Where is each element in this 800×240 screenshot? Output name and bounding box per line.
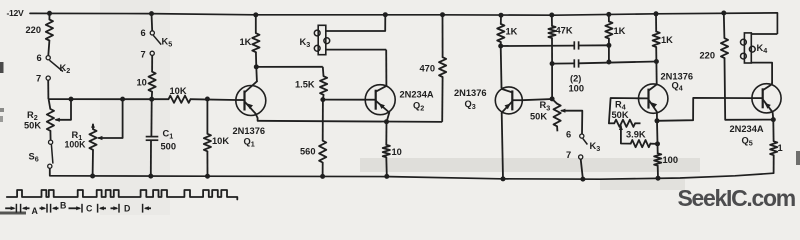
potentiometer R1 100K	[65, 123, 97, 150]
wire Q4 base	[609, 98, 639, 123]
svg-text:2N1376: 2N1376	[454, 88, 487, 98]
svg-text:50K: 50K	[612, 110, 629, 120]
capacitor 100 (upper)	[574, 41, 578, 49]
resistor 1K (Q4 collector)	[653, 14, 674, 62]
label K5	[162, 37, 173, 49]
relay contact K3 pin 7	[566, 150, 583, 160]
wire 220 to emitter node	[725, 58, 774, 120]
transistor Q5 2N234A	[730, 83, 782, 148]
resistor 1K (mid)	[605, 14, 625, 45]
wire R2 to S6	[49, 131, 51, 140]
svg-text:1K: 1K	[506, 27, 518, 37]
wire ground bottom rail	[50, 173, 774, 179]
wire Q3 emitter to ground	[502, 113, 503, 179]
resistor 1K (Q1 collector)	[240, 15, 260, 67]
node top rail / 1K Q4	[654, 11, 659, 16]
svg-text:50K: 50K	[24, 121, 41, 131]
wire Q3 base	[522, 99, 552, 100]
svg-text:B: B	[60, 201, 66, 211]
relay contact K2 pin 6	[37, 53, 51, 63]
wire K3 pin7 to ground	[581, 159, 583, 179]
node ground / R1	[90, 174, 95, 179]
resistor 100 (Q4 emitter)	[654, 144, 678, 178]
relay coil K3	[300, 25, 330, 54]
switch S6 top contact	[49, 140, 53, 144]
svg-text:1K: 1K	[614, 26, 626, 36]
switch S6 bottom contact	[48, 164, 52, 168]
wire 1K to Q4 collector	[655, 62, 657, 85]
waveform dimension arrows	[5, 204, 151, 213]
svg-text:1.5K: 1.5K	[295, 80, 315, 90]
wire Q1 collector to 1.5K	[256, 66, 323, 68]
wire K2 pin7 to node	[47, 80, 49, 99]
svg-text:10: 10	[137, 78, 147, 88]
node top rail / 47K	[549, 13, 554, 18]
relay contact K2 blade	[49, 60, 63, 71]
resistor 47K	[548, 15, 572, 64]
wire coupling cap top right	[579, 44, 609, 46]
node 1K / coupling cap	[498, 44, 503, 49]
node 47K / coupling cap lower	[550, 61, 555, 66]
wire C1 bottom lead	[150, 140, 152, 176]
node 1.5K / Q2 base / 560	[320, 97, 325, 102]
svg-text:10: 10	[392, 147, 402, 157]
wire Q1 collector	[255, 67, 258, 81]
wire emitter bus	[258, 121, 443, 122]
wire R2 wiper	[54, 99, 71, 122]
svg-text:47K: 47K	[556, 26, 573, 36]
svg-text:6: 6	[566, 129, 571, 139]
svg-text:2N1376: 2N1376	[233, 126, 266, 136]
node Q3 base / R3	[550, 96, 555, 101]
label interval A	[32, 206, 39, 216]
svg-text:7: 7	[566, 150, 571, 160]
wire rail to K5	[151, 14, 154, 31]
node top rail / K5	[149, 11, 154, 16]
wire coupling cap bottom right	[579, 62, 657, 64]
node top rail / 1K Q1	[253, 12, 258, 17]
svg-text:A: A	[32, 206, 39, 215]
node ground / 10K	[205, 174, 210, 179]
wire Q4 emitter down	[656, 121, 659, 144]
svg-text:7: 7	[141, 50, 146, 60]
node ground / 100	[656, 176, 661, 181]
svg-text:50K: 50K	[530, 111, 547, 121]
svg-text:2N234A: 2N234A	[730, 124, 764, 134]
svg-text:100: 100	[569, 84, 585, 94]
resistor 1 (Q5 emitter)	[770, 120, 783, 174]
wire R1 wiper	[97, 99, 123, 140]
node Q4 emitter	[655, 118, 660, 123]
transistor Q3 2N1376	[454, 87, 522, 114]
relay contact K5 pin 6	[141, 28, 155, 38]
watermark SeekIC.com	[678, 185, 796, 211]
wire K3 coil to Q2 collector	[326, 49, 386, 51]
svg-text:2N234A: 2N234A	[400, 90, 434, 100]
wire to Q2 base	[323, 99, 365, 101]
wire base line left	[48, 98, 168, 100]
svg-text:470: 470	[420, 64, 436, 74]
resistor 10K (series)	[169, 86, 191, 103]
wire K3 coil to rail	[326, 15, 386, 31]
potentiometer R4 50K	[609, 100, 641, 127]
node top rail / 470	[440, 12, 445, 17]
wire 47K to Q3 base node	[551, 64, 553, 99]
transistor Q4 2N1376	[639, 72, 694, 121]
relay contact K5 blade	[153, 35, 161, 44]
svg-text:SeekIC.com: SeekIC.com	[678, 185, 796, 211]
svg-text:220: 220	[26, 25, 42, 35]
node Q1 collector	[254, 64, 259, 69]
wire coupling cap bottom left	[552, 62, 574, 64]
relay coil K4	[741, 33, 768, 63]
svg-text:C: C	[86, 204, 93, 214]
svg-text:1K: 1K	[661, 35, 673, 45]
label interval C	[86, 204, 93, 214]
wire K4 coil to Q5 collector	[751, 63, 772, 83]
node emitter bus / Q2	[384, 119, 389, 124]
relay contact K2 pin 7	[36, 74, 50, 84]
svg-text:-12V: -12V	[7, 8, 25, 18]
node top rail / 220 left	[47, 11, 52, 16]
node top rail / 1K mid	[606, 12, 611, 17]
svg-text:1K: 1K	[240, 37, 252, 47]
node cap lower row mid	[606, 60, 611, 65]
potentiometer R2 50K	[24, 109, 54, 131]
relay contact K3 blade	[583, 138, 588, 144]
svg-text:100K: 100K	[65, 140, 87, 150]
resistor 220 (right)	[700, 13, 729, 61]
waveform pulse train	[7, 190, 238, 200]
svg-text:6: 6	[141, 28, 146, 38]
wire Q4 emitter to Q5 base	[657, 98, 752, 121]
svg-text:7: 7	[36, 74, 41, 84]
node ground / K3	[580, 177, 585, 182]
potentiometer R3 50K	[530, 99, 561, 131]
node Q5 emitter	[771, 117, 776, 122]
node base line / R1 wiper	[120, 97, 125, 102]
relay contact K3 pin 6	[566, 129, 584, 139]
node ground / Q3 emitter	[501, 176, 506, 181]
node ground / 560	[320, 174, 325, 179]
resistor 560	[300, 100, 326, 177]
svg-text:3.9K: 3.9K	[626, 130, 646, 140]
svg-text:6: 6	[37, 53, 42, 63]
transistor Q1 2N1376	[233, 81, 266, 148]
wire base line right	[191, 98, 236, 101]
label K2	[60, 63, 71, 75]
node ground / C1	[148, 174, 153, 179]
svg-text:1: 1	[778, 143, 783, 153]
resistor 220 (left)	[26, 13, 54, 55]
node base line / 10K vert	[205, 97, 210, 102]
node base line / R2 wiper	[69, 97, 74, 102]
label interval D	[124, 204, 130, 214]
node 1K / Q4 collector	[654, 59, 659, 64]
node top rail / K3 coil	[383, 12, 388, 17]
resistor 3.9K	[626, 130, 658, 148]
resistor 10 (K5 leg)	[137, 72, 156, 92]
svg-text:560: 560	[300, 147, 316, 157]
svg-text:500: 500	[161, 142, 177, 152]
relay contact K5 pin 7	[141, 50, 155, 60]
resistor 10 (emitter)	[383, 122, 402, 177]
wire K5 pin7 to 10 ohm	[151, 55, 153, 71]
resistor 470	[420, 15, 447, 122]
transistor Q2 2N234A	[365, 85, 434, 122]
svg-text:220: 220	[700, 51, 716, 61]
capacitor 100 (lower)	[569, 59, 585, 93]
label interval B	[60, 201, 66, 211]
wire R2 top lead	[49, 99, 51, 109]
node ground / 10	[384, 174, 389, 179]
wire K4 coil to rail	[751, 33, 777, 35]
wire R1 to ground	[92, 150, 94, 176]
svg-text:100: 100	[663, 155, 679, 165]
wire cap rows link	[608, 45, 610, 62]
label S6	[29, 152, 39, 164]
svg-text:D: D	[124, 204, 130, 214]
node top rail / 1K Q3	[499, 13, 504, 18]
wire C1 top lead	[150, 99, 152, 136]
resistor 1.5K	[295, 67, 327, 100]
label -12V supply	[7, 8, 25, 18]
wire coupling cap top left	[501, 45, 574, 47]
node 1K mid / cap top row	[606, 43, 611, 48]
capacitor C1 500	[146, 129, 176, 152]
resistor 1K (Q3 collector)	[497, 15, 517, 46]
resistor 10K (to ground)	[204, 99, 230, 176]
svg-text:(2): (2)	[570, 74, 581, 84]
node 3.9K / 100	[655, 141, 660, 146]
switch S6 blade	[51, 145, 53, 164]
wire 10 ohm to base line	[151, 92, 153, 100]
wire R3 wiper	[560, 109, 582, 134]
node top rail / 220 right	[721, 11, 726, 16]
node base line / C1	[149, 97, 154, 102]
wire Q2 collector	[385, 50, 387, 86]
wire S6 to ground rail	[49, 168, 51, 175]
wire R4 wiper	[619, 125, 631, 144]
wire 1K to Q3 collector	[500, 46, 503, 88]
label K3 contacts	[590, 141, 601, 153]
svg-text:10K: 10K	[212, 136, 229, 146]
wire -12V top rail	[30, 13, 777, 34]
svg-text:10K: 10K	[170, 86, 187, 96]
